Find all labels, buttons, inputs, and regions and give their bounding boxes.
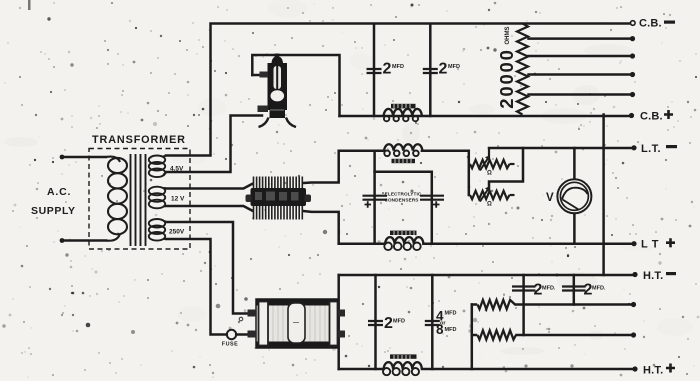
rheostat R1 — [470, 160, 510, 168]
rheostat R2 — [470, 191, 510, 199]
choke L1 on C.B.+ rail — [384, 104, 422, 122]
capacitor C8 plates — [562, 287, 586, 291]
potentiometer tap 1 — [529, 37, 632, 40]
svg-text:C.B.: C.B. — [639, 18, 662, 30]
svg-text:OHMS: OHMS — [505, 27, 511, 45]
terminal C.B.+ — [629, 113, 634, 118]
resistor RA h.t. tap — [478, 300, 516, 309]
capacitor C5 2MFD branch — [374, 275, 377, 369]
svg-text:H.T.: H.T. — [643, 365, 663, 377]
valve side pins — [260, 72, 269, 78]
A.C. supply top lead — [62, 156, 106, 159]
capacitor C7 plates — [512, 287, 536, 291]
wire: 12V winding bottom lead — [166, 206, 252, 211]
svg-text:MFD: MFD — [445, 327, 457, 333]
choke L4 on H.T.+ rail — [383, 354, 422, 375]
terminal L.T.+ — [631, 241, 636, 246]
capacitor C5 plates — [368, 321, 383, 325]
choke L2 on L.T.- line — [384, 144, 422, 163]
capacitor C8 2MFD branch — [573, 275, 576, 305]
scan artifact tick top-left — [28, 0, 31, 10]
wire: rectifier valve anode loop to C.B.+ rail — [252, 55, 339, 116]
wire: fuse to H.T. rectifier lower pin — [236, 333, 247, 336]
capacitor C2 2MFD lead — [429, 25, 432, 116]
valve legs — [259, 118, 297, 128]
L.T. metal rectifier MR1 (finned) — [246, 177, 312, 220]
wire: 250V winding bottom lead to fuse — [166, 239, 227, 335]
svg-text:L.T.: L.T. — [641, 143, 661, 155]
electrolytic condenser C3 polarity — [365, 201, 372, 208]
potentiometer tap 2 — [529, 55, 632, 58]
wire: rheostat R2 wiper link — [489, 148, 523, 189]
wire: voltmeter branch — [573, 148, 576, 244]
terminal C.B.- — [631, 21, 636, 26]
terminal H.T.- — [632, 272, 637, 277]
svg-text:2: 2 — [439, 61, 448, 78]
wire: valve lower pin lead from 4.5V winding — [166, 116, 262, 173]
svg-text:H.T.: H.T. — [643, 270, 663, 282]
svg-text:20000: 20000 — [496, 48, 517, 108]
A.C. supply terminal dots — [60, 155, 65, 160]
A.C. supply bottom lead — [62, 239, 106, 242]
svg-text:MFD: MFD — [392, 64, 404, 70]
svg-text:MFD.: MFD. — [592, 286, 606, 292]
svg-text:2: 2 — [384, 315, 393, 332]
svg-text:A.C.: A.C. — [47, 186, 71, 198]
wire: C.B.+ rail — [340, 115, 631, 118]
capacitor C6 4-8MFD branch — [431, 275, 434, 369]
wire: electrolytic condenser C3 branch — [373, 151, 376, 244]
wire: electrolytic condenser C4 branch — [375, 172, 432, 244]
wire: H.T. tap line A — [472, 303, 632, 306]
wire: L.T. rectifier output top to choke L2 — [303, 151, 384, 183]
svg-text:SUPPLY: SUPPLY — [31, 205, 76, 217]
capacitor C1 plates — [367, 69, 382, 73]
svg-text:ELECTROLYTIC: ELECTROLYTIC — [385, 191, 422, 196]
wire: L.T.- line rheostat output to terminal — [489, 147, 633, 150]
wire: L.T.- line choke to rheostats — [422, 151, 469, 195]
svg-text:250V: 250V — [169, 229, 185, 236]
transformer 4.5V secondary winding — [149, 156, 167, 178]
transformer 12V secondary winding — [149, 187, 167, 209]
resistor RB h.t. tap — [478, 330, 517, 339]
wire: L.T. rectifier bottom to L.T.+ line — [303, 211, 339, 244]
capacitor C2 plates — [423, 69, 438, 73]
wire: C.B.+ to H.T.- long vertical — [602, 115, 605, 276]
H.T. rectifier pins — [248, 310, 257, 317]
electrolytic condenser C4 polarity — [433, 201, 440, 208]
wire: H.T.+ rail — [339, 368, 633, 371]
wire: 250V winding top lead to H.T. rectifier — [166, 222, 247, 314]
rheostat R2 wiper arrow — [480, 190, 488, 202]
svg-text:C.B.: C.B. — [640, 111, 663, 123]
terminal dots H.T. taps — [631, 302, 636, 307]
svg-text:FUSE: FUSE — [222, 342, 238, 348]
svg-text:MFD: MFD — [448, 64, 460, 70]
terminal L.T.- — [631, 145, 636, 150]
svg-text:8: 8 — [436, 322, 444, 337]
svg-text:2: 2 — [383, 61, 392, 78]
wire: H.T.- rail — [339, 274, 633, 277]
terminal dots potentiometer taps — [630, 36, 635, 41]
rheostat R1 wiper arrow — [480, 159, 488, 171]
electrolytic condenser C4 plates — [420, 196, 444, 200]
wire: H.T. tap line B — [472, 334, 632, 337]
capacitor C7 2MFD branch — [522, 275, 525, 335]
wire: H.T. rectifier right side vertical — [337, 275, 340, 369]
H.T. metal rectifier MR2 (cylinder) — [248, 299, 346, 348]
wire: 12V winding top lead — [166, 184, 252, 189]
svg-text:MFD.: MFD. — [542, 286, 556, 292]
svg-text:TRANSFORMER: TRANSFORMER — [92, 134, 186, 146]
transformer 250V secondary winding — [149, 219, 167, 241]
terminal H.T.+ — [632, 366, 637, 371]
transformer dashed enclosure — [89, 149, 190, 250]
choke L3 on L.T.+ line — [384, 231, 423, 251]
svg-text:Ω: Ω — [487, 202, 492, 208]
voltmeter V — [557, 179, 591, 213]
electrolytic condenser C3 plates — [363, 196, 388, 200]
capacitor C6 plates — [425, 321, 440, 325]
fuse — [227, 330, 236, 339]
wire: C.B.- top bus with riser to 4.5V winding — [166, 24, 630, 156]
svg-text:L T: L T — [641, 239, 659, 251]
svg-text:MFD: MFD — [445, 311, 457, 317]
rectifier valve V1 (C.B. rectifier) — [258, 54, 297, 128]
transformer primary winding — [106, 157, 127, 241]
capacitor C1 2MFD lead — [373, 25, 376, 116]
svg-text:MFD: MFD — [393, 319, 405, 325]
transformer core — [131, 154, 146, 246]
potentiometer tap 4 — [529, 93, 632, 96]
svg-text:CONDENSERS: CONDENSERS — [384, 197, 418, 202]
svg-text:V: V — [546, 192, 554, 204]
svg-text:Ω: Ω — [487, 171, 492, 177]
svg-text:12 V: 12 V — [171, 196, 185, 203]
wire: output resistor block left vertical — [471, 305, 474, 370]
resistor 20000 ohms potentiometer — [517, 24, 528, 115]
svg-text:4.5V: 4.5V — [170, 166, 184, 173]
wire: valve upper pin lead — [252, 74, 262, 77]
wire: L.T.+ line — [339, 242, 633, 245]
potentiometer tap 3 — [529, 73, 632, 76]
small o mark near H.T. rectifier pin — [239, 317, 243, 321]
